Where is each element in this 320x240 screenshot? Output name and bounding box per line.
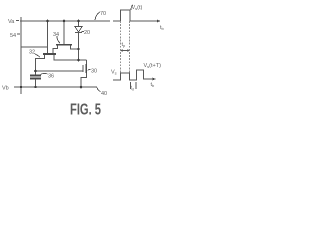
svg-text:30: 30: [91, 69, 97, 75]
svg-text:Vb: Vb: [2, 86, 9, 92]
svg-text:20: 20: [84, 30, 90, 36]
svg-text:FIG. 5: FIG. 5: [70, 102, 101, 119]
svg-text:Va: Va: [8, 19, 15, 25]
svg-text:Vs(t): Vs(t): [132, 5, 143, 11]
svg-text:70: 70: [100, 11, 106, 17]
svg-text:40: 40: [101, 91, 107, 97]
svg-text:Vs(t+T): Vs(t+T): [144, 63, 162, 69]
svg-text:36: 36: [48, 74, 54, 80]
svg-text:tp: tp: [122, 42, 127, 48]
svg-text:td: td: [131, 86, 134, 92]
svg-text:54: 54: [10, 33, 16, 39]
svg-text:tb: tb: [151, 82, 156, 88]
svg-text:Vs: Vs: [111, 70, 117, 76]
svg-text:32: 32: [29, 50, 35, 56]
svg-text:tb: tb: [160, 25, 165, 31]
svg-text:34: 34: [53, 32, 59, 38]
